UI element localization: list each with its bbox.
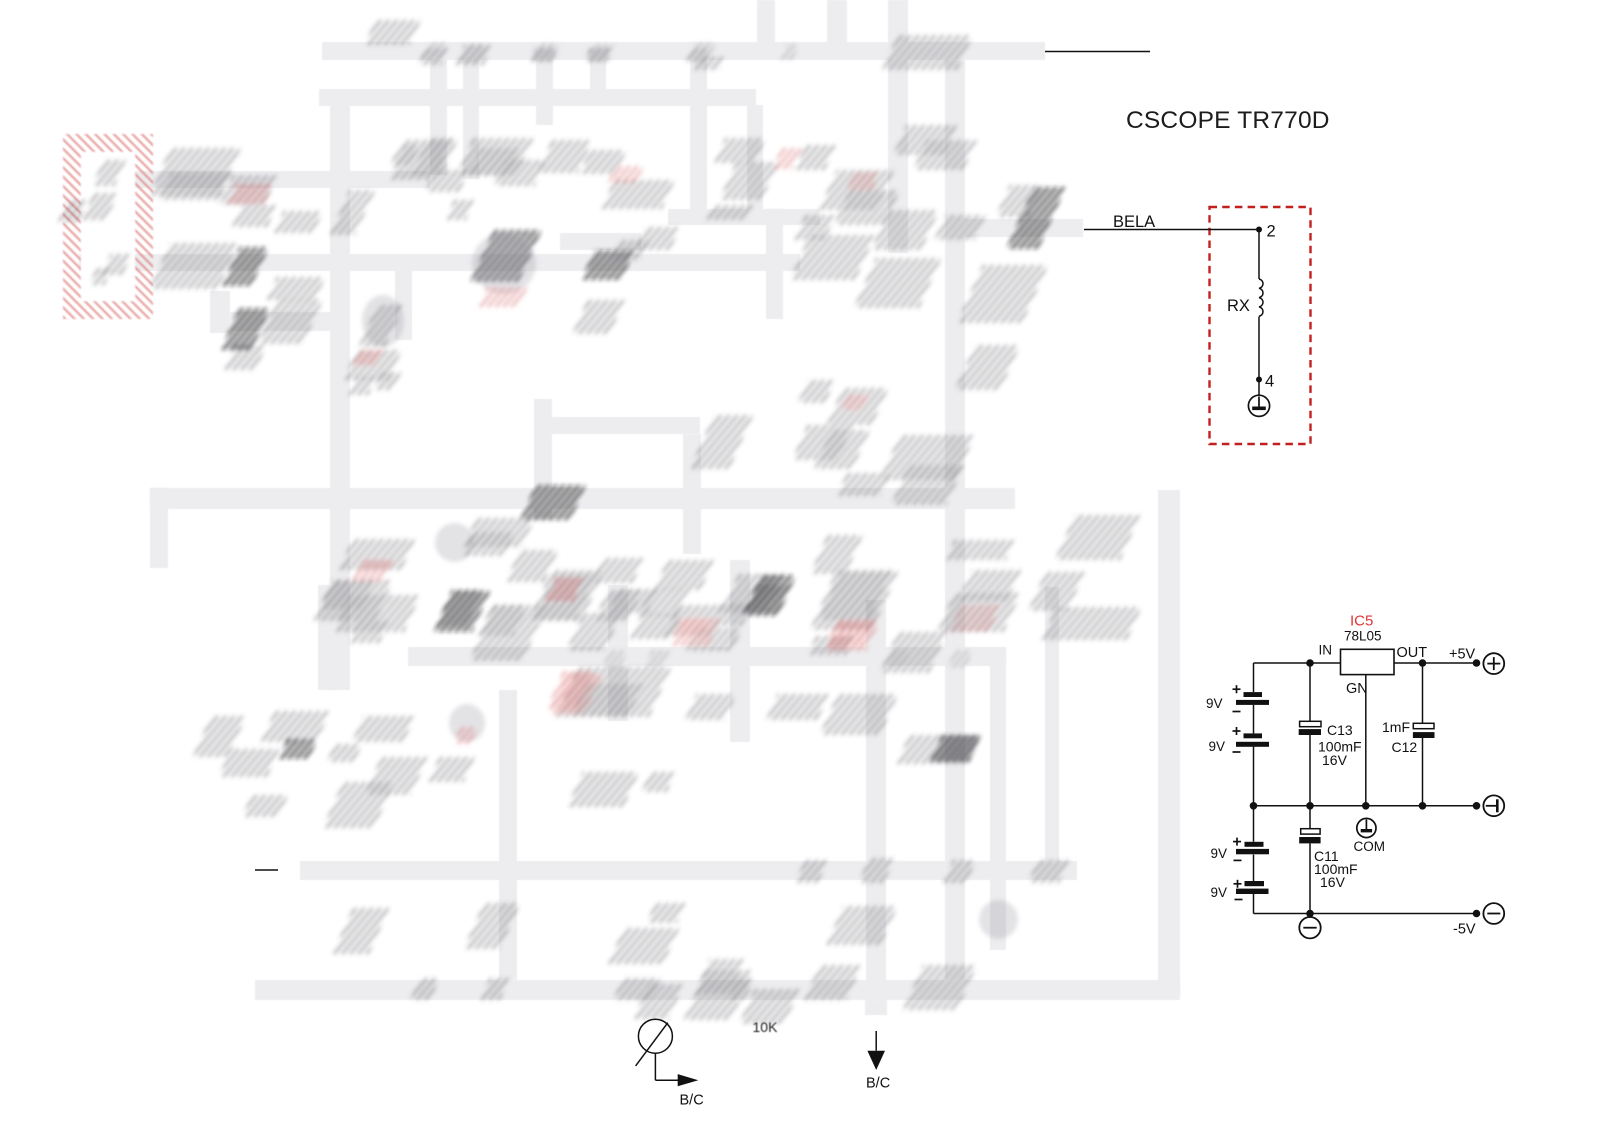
svg-text:2: 2 — [1267, 223, 1276, 241]
svg-text:16V: 16V — [1322, 752, 1348, 768]
svg-text:1mF: 1mF — [1382, 719, 1410, 735]
svg-text:IC5: IC5 — [1350, 613, 1373, 630]
svg-text:9V: 9V — [1209, 739, 1226, 754]
svg-text:10K: 10K — [753, 1019, 779, 1035]
svg-text:78L05: 78L05 — [1344, 629, 1382, 644]
svg-text:9V: 9V — [1206, 696, 1223, 711]
svg-text:C12: C12 — [1392, 739, 1418, 755]
svg-text:9V: 9V — [1211, 846, 1228, 861]
svg-text:RX: RX — [1227, 297, 1250, 315]
svg-text:COM: COM — [1354, 839, 1386, 854]
svg-text:CSCOPE TR770D: CSCOPE TR770D — [1126, 107, 1330, 134]
svg-text:GN: GN — [1346, 681, 1368, 697]
svg-text:B/C: B/C — [866, 1076, 890, 1092]
svg-text:9V: 9V — [1211, 885, 1228, 900]
svg-text:4: 4 — [1265, 373, 1274, 391]
svg-text:IN: IN — [1319, 643, 1333, 658]
svg-text:OUT: OUT — [1397, 645, 1428, 661]
svg-text:16V: 16V — [1320, 874, 1346, 890]
svg-text:B/C: B/C — [680, 1093, 704, 1109]
svg-text:BELA: BELA — [1113, 213, 1155, 231]
svg-text:C13: C13 — [1327, 722, 1353, 738]
svg-text:-5V: -5V — [1453, 922, 1476, 938]
svg-text:+5V: +5V — [1449, 647, 1476, 663]
